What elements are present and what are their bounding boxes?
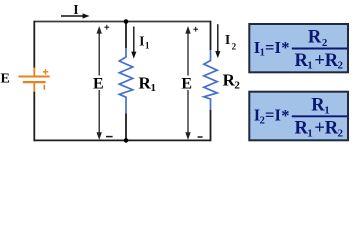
- svg-text:2: 2: [337, 60, 343, 72]
- svg-text:E: E: [1, 71, 10, 86]
- current arrow I2: [217, 24, 219, 52]
- wire bottom: [34, 139, 210, 141]
- plus sign (right loop): [193, 27, 198, 32]
- formula box 2: I2 = I * R1/(R1+R2): [249, 92, 348, 141]
- svg-text:I: I: [73, 3, 78, 18]
- resistor R1: [119, 48, 132, 114]
- svg-text:*: *: [281, 38, 289, 57]
- svg-text:E: E: [93, 76, 104, 93]
- wire R1 branch upper: [125, 22, 127, 49]
- wire right upper: [210, 21, 212, 50]
- battery E: [19, 68, 50, 92]
- voltmeter arrow E (right loop): [187, 32, 189, 135]
- minus sign (left loop): [106, 136, 113, 138]
- node B bottom junction: [124, 138, 129, 143]
- fraction bar box 2: [292, 115, 347, 117]
- svg-text:2: 2: [337, 127, 343, 139]
- svg-text:2: 2: [234, 80, 240, 92]
- svg-text:=: =: [265, 38, 274, 57]
- svg-text:=: =: [265, 106, 274, 125]
- wire left upper: [33, 21, 35, 68]
- current arrow I (top): [61, 15, 84, 17]
- svg-text:2: 2: [322, 37, 328, 49]
- svg-text:I: I: [274, 38, 280, 57]
- svg-text:1: 1: [150, 82, 156, 94]
- svg-text:1: 1: [145, 40, 150, 50]
- wire left lower: [33, 92, 35, 142]
- wire top: [34, 21, 210, 23]
- svg-text:R: R: [311, 95, 325, 115]
- resistor R2: [204, 50, 217, 110]
- wire R1 branch lower: [125, 114, 127, 141]
- svg-text:E: E: [181, 76, 192, 93]
- svg-text:2: 2: [232, 41, 237, 51]
- svg-text:*: *: [281, 106, 289, 125]
- plus sign (left loop): [104, 25, 109, 30]
- svg-text:1: 1: [307, 60, 313, 72]
- fraction bar box 1: [292, 48, 347, 50]
- current arrow I1: [133, 27, 135, 53]
- svg-text:I: I: [274, 106, 280, 125]
- svg-text:I: I: [225, 33, 230, 48]
- minus sign (right loop): [198, 136, 203, 138]
- svg-text:R: R: [308, 28, 322, 48]
- formula box 1: I1 = I * R2/(R1+R2): [249, 24, 348, 72]
- svg-text:+: +: [314, 51, 325, 71]
- svg-text:1: 1: [307, 127, 313, 139]
- svg-text:+: +: [314, 119, 325, 139]
- svg-text:I: I: [139, 35, 144, 50]
- voltmeter arrow E (left loop): [98, 32, 100, 135]
- svg-text:1: 1: [324, 105, 330, 117]
- node A top junction: [124, 19, 129, 24]
- wire right lower: [210, 110, 212, 141]
